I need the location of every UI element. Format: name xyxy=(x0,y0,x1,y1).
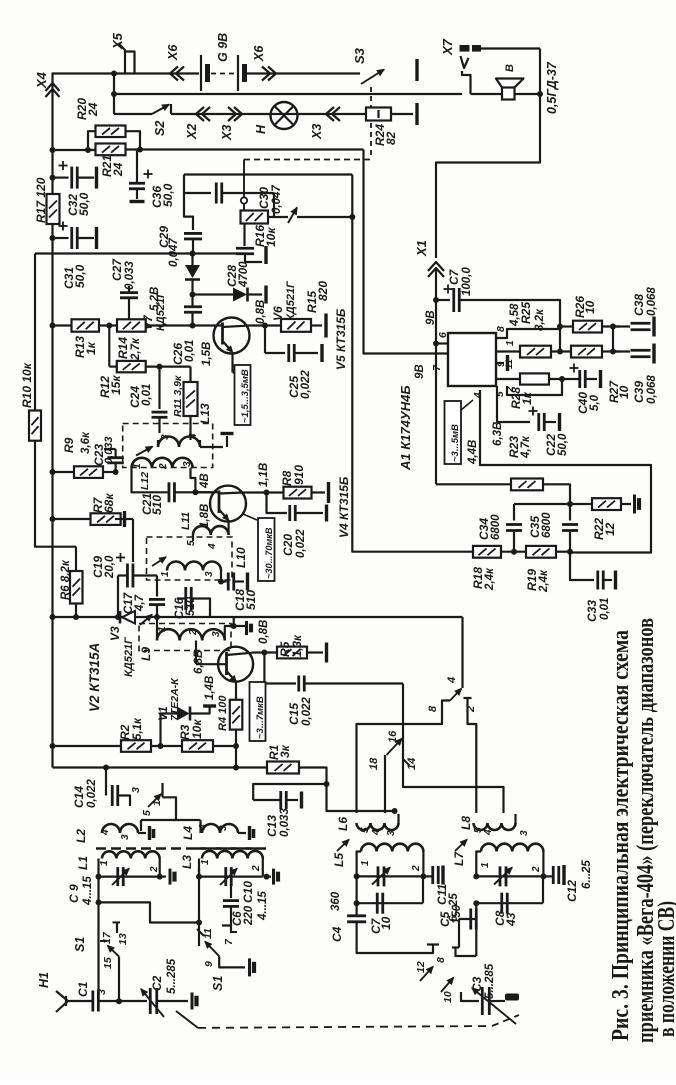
svg-text:X2: X2 xyxy=(185,124,199,140)
svg-text:А1 К174УН4Б: А1 К174УН4Б xyxy=(398,385,413,471)
svg-text:C30: C30 xyxy=(257,187,271,209)
svg-text:Н: Н xyxy=(254,124,268,134)
svg-text:5...285: 5...285 xyxy=(166,958,178,994)
svg-text:3: 3 xyxy=(182,461,193,467)
switch contact 8 xyxy=(442,701,450,713)
svg-text:R23: R23 xyxy=(507,436,521,458)
jack X7 xyxy=(460,45,470,52)
svg-text:4...15: 4...15 xyxy=(257,891,269,921)
svg-text:510: 510 xyxy=(244,590,258,610)
svg-text:КД521Г: КД521Г xyxy=(123,636,135,677)
node X4 xyxy=(53,74,115,768)
pin 6 xyxy=(433,341,439,347)
tank L5 xyxy=(337,840,349,852)
wire 9V rail xyxy=(126,148,364,150)
transistor V4 xyxy=(195,491,210,493)
speaker B 0.5GD-37 xyxy=(502,88,515,100)
coil L8 xyxy=(474,823,516,830)
svg-text:V4 КТ315Б: V4 КТ315Б xyxy=(337,476,351,538)
svg-text:S2: S2 xyxy=(153,121,167,136)
svg-text:Н1: Н1 xyxy=(37,972,51,988)
ground pin9 xyxy=(496,362,504,364)
capacitor C16 xyxy=(184,587,187,610)
svg-text:0,022: 0,022 xyxy=(300,370,312,399)
ferrite rod dash xyxy=(96,847,260,849)
capacitor C24 xyxy=(158,367,160,409)
diode V7 xyxy=(190,251,196,257)
resistor R15 xyxy=(262,323,268,329)
svg-text:12: 12 xyxy=(603,522,617,536)
svg-text:C24: C24 xyxy=(128,386,142,408)
svg-text:1: 1 xyxy=(505,340,516,346)
svg-text:4,7: 4,7 xyxy=(134,594,146,612)
capacitor C23 xyxy=(114,463,116,472)
capacitor C6 xyxy=(230,885,232,898)
svg-text:2: 2 xyxy=(149,866,160,873)
signal box ~30-70uV xyxy=(258,518,275,581)
svg-text:С 9: С 9 xyxy=(67,884,81,903)
capacitor C19 xyxy=(116,557,125,559)
svg-text:1: 1 xyxy=(360,860,371,866)
switch blade 12 xyxy=(420,967,433,982)
svg-text:1,4В: 1,4В xyxy=(204,676,216,700)
svg-text:C20: C20 xyxy=(281,534,295,556)
resistor R13 xyxy=(50,323,56,329)
potentiometer R16 xyxy=(241,197,247,203)
capacitor C15 xyxy=(264,653,296,684)
svg-text:10: 10 xyxy=(379,916,393,930)
svg-text:R4 100: R4 100 xyxy=(217,695,229,731)
coil L6 xyxy=(357,823,399,830)
capacitor C36 xyxy=(136,150,138,183)
resistor R14 xyxy=(117,319,146,331)
capacitor C26 xyxy=(184,305,202,308)
capacitor C12 xyxy=(543,875,553,877)
svg-text:L8: L8 xyxy=(459,816,473,830)
svg-text:9: 9 xyxy=(203,961,215,967)
svg-text:4...15: 4...15 xyxy=(82,876,94,906)
IF transformer L13 xyxy=(158,437,200,447)
svg-text:8,2к: 8,2к xyxy=(534,308,546,331)
svg-text:~3...7мкВ: ~3...7мкВ xyxy=(255,696,266,739)
svg-text:10к: 10к xyxy=(190,719,204,739)
capacitor C40 xyxy=(570,367,579,369)
svg-text:10: 10 xyxy=(442,991,454,1003)
lamp H xyxy=(271,102,298,129)
svg-text:0,068: 0,068 xyxy=(646,287,658,316)
svg-text:C22: C22 xyxy=(544,434,558,456)
svg-text:9В: 9В xyxy=(414,364,426,379)
svg-text:6,3В: 6,3В xyxy=(492,422,504,446)
svg-text:0,033: 0,033 xyxy=(103,436,115,464)
svg-text:C7: C7 xyxy=(447,268,461,285)
svg-text:L11: L11 xyxy=(180,512,192,530)
wire feedback loop xyxy=(480,390,651,553)
svg-text:5...285: 5...285 xyxy=(484,963,496,999)
svg-text:Рис. 3. Принципиальная элект: Рис. 3. Принципиальная электрическая схе… xyxy=(607,630,634,1041)
svg-text:V5 КТ315Б: V5 КТ315Б xyxy=(334,308,348,370)
switch contact 16 xyxy=(387,739,403,756)
svg-text:50,0: 50,0 xyxy=(73,264,87,288)
loop antenna L1 xyxy=(97,859,99,877)
svg-text:50,0: 50,0 xyxy=(77,192,91,216)
ground xyxy=(138,832,146,834)
svg-text:В: В xyxy=(504,64,516,72)
svg-text:L12: L12 xyxy=(139,472,151,490)
svg-text:G 9В: G 9В xyxy=(216,33,230,62)
svg-text:R19: R19 xyxy=(525,569,539,591)
resistor R21 xyxy=(96,144,126,156)
svg-text:C34: C34 xyxy=(477,518,491,540)
ground xyxy=(267,875,272,877)
wire antenna tap xyxy=(96,899,102,905)
resistor R28 xyxy=(496,378,520,380)
svg-text:1: 1 xyxy=(157,626,168,632)
capacitor C28 xyxy=(243,223,245,246)
svg-text:C28: C28 xyxy=(225,265,239,287)
resistor R2 xyxy=(50,743,56,749)
wire bottom rail xyxy=(53,766,268,768)
svg-text:0,01: 0,01 xyxy=(141,384,153,406)
svg-text:R14: R14 xyxy=(116,337,130,359)
capacitor C32 xyxy=(50,175,56,181)
svg-text:3к: 3к xyxy=(278,744,292,758)
svg-text:2: 2 xyxy=(411,865,422,872)
svg-text:0,022: 0,022 xyxy=(295,529,307,558)
svg-text:0,068: 0,068 xyxy=(646,375,658,404)
resistor R12 xyxy=(108,326,110,367)
svg-text:V3: V3 xyxy=(108,626,122,641)
capacitor C8 xyxy=(476,902,543,904)
capacitor C29 xyxy=(184,232,202,235)
svg-text:R10 10к: R10 10к xyxy=(20,362,34,408)
svg-text:R25: R25 xyxy=(519,302,533,324)
svg-text:360: 360 xyxy=(330,891,342,911)
svg-text:X5: X5 xyxy=(110,32,125,50)
svg-text:C27: C27 xyxy=(110,258,124,281)
svg-text:4: 4 xyxy=(473,392,484,399)
svg-text:L2: L2 xyxy=(74,829,88,843)
svg-text:1к: 1к xyxy=(520,391,534,405)
svg-text:9В: 9В xyxy=(425,310,437,325)
svg-text:43: 43 xyxy=(504,912,518,927)
svg-text:16: 16 xyxy=(387,730,399,743)
svg-text:6: 6 xyxy=(437,332,449,338)
svg-text:1к: 1к xyxy=(84,341,98,355)
svg-text:18: 18 xyxy=(368,757,380,770)
svg-text:L7: L7 xyxy=(452,851,466,866)
svg-text:510: 510 xyxy=(185,596,197,616)
svg-text:68к: 68к xyxy=(102,493,116,513)
svg-text:2: 2 xyxy=(251,865,262,872)
gang capacitor C2 xyxy=(116,998,122,1004)
svg-text:~30...70мкВ: ~30...70мкВ xyxy=(264,527,274,579)
svg-text:С10: С10 xyxy=(241,881,255,903)
svg-text:2: 2 xyxy=(531,866,542,873)
svg-text:C14: C14 xyxy=(72,786,86,808)
gang link xyxy=(176,1011,198,1028)
capacitor C34 xyxy=(513,504,515,521)
voltage box ~1.5-3.5mV xyxy=(235,365,251,425)
svg-text:L6: L6 xyxy=(336,817,350,831)
wire top bus xyxy=(114,72,199,74)
svg-text:С3: С3 xyxy=(470,976,484,992)
svg-text:4: 4 xyxy=(100,829,111,836)
svg-text:R5: R5 xyxy=(278,641,292,657)
capacitor C10 trimmer xyxy=(196,874,202,880)
svg-text:L5: L5 xyxy=(332,853,346,867)
svg-text:C38: C38 xyxy=(632,294,646,316)
wire het bus corner xyxy=(461,617,463,688)
svg-text:10к: 10к xyxy=(264,227,278,247)
svg-text:6...25: 6...25 xyxy=(581,860,593,889)
svg-text:L3: L3 xyxy=(180,855,194,869)
ground xyxy=(191,993,194,1010)
resistor R27 xyxy=(571,346,602,358)
svg-text:0,047: 0,047 xyxy=(271,185,283,214)
tank L7 xyxy=(455,840,467,852)
svg-text:X6: X6 xyxy=(252,45,266,62)
svg-text:13: 13 xyxy=(117,933,129,945)
IC A1 K174UN4B xyxy=(448,333,496,386)
svg-text:5,1к: 5,1к xyxy=(132,717,144,740)
svg-text:910: 910 xyxy=(292,465,306,485)
trimmer across L7 xyxy=(499,866,502,886)
svg-text:4: 4 xyxy=(207,543,218,550)
svg-text:R6 8,2к: R6 8,2к xyxy=(60,559,72,600)
svg-text:С2: С2 xyxy=(150,975,164,991)
battery G 9V xyxy=(200,55,202,91)
svg-text:0,022: 0,022 xyxy=(301,697,313,726)
resistor R18 xyxy=(352,175,473,552)
gang dashes xyxy=(198,1026,492,1028)
svg-text:4700: 4700 xyxy=(238,261,250,288)
connector X2 xyxy=(196,107,204,121)
capacitor C35 xyxy=(569,519,571,521)
oscillator coil L9 xyxy=(139,624,231,651)
resistor R1 xyxy=(267,762,299,774)
switch contact 18 xyxy=(384,755,386,813)
capacitor C9 trimmer xyxy=(96,874,102,880)
svg-text:150: 150 xyxy=(451,904,463,924)
diode V6 xyxy=(190,292,196,298)
svg-text:5,2В: 5,2В xyxy=(149,287,161,311)
capacitor C33 xyxy=(570,552,594,580)
resistor R17 xyxy=(47,194,60,224)
svg-text:C19: C19 xyxy=(91,556,105,578)
resistor R5 xyxy=(253,651,278,653)
svg-text:0,8В: 0,8В xyxy=(255,300,267,324)
svg-text:X3: X3 xyxy=(220,125,234,141)
connector X1 xyxy=(428,262,444,271)
svg-text:С11: С11 xyxy=(435,884,449,905)
diode V3 xyxy=(122,611,135,624)
svg-text:1: 1 xyxy=(160,571,171,577)
svg-text:X1: X1 xyxy=(414,240,429,257)
resistor R6 xyxy=(70,571,83,604)
svg-text:КД521Г: КД521Г xyxy=(285,280,297,321)
svg-text:0,047: 0,047 xyxy=(168,238,180,267)
ground xyxy=(226,436,228,447)
svg-text:X4: X4 xyxy=(34,71,49,89)
svg-text:1: 1 xyxy=(132,463,143,469)
svg-text:1: 1 xyxy=(200,859,211,865)
svg-text:L13: L13 xyxy=(198,403,212,424)
svg-text:1,8В: 1,8В xyxy=(199,504,211,528)
svg-text:C39: C39 xyxy=(632,381,646,403)
svg-text:3,6к: 3,6к xyxy=(80,431,92,454)
svg-text:R18: R18 xyxy=(471,567,485,589)
signal box ~3-7uV xyxy=(250,682,266,741)
svg-text:S1: S1 xyxy=(211,976,225,991)
switch contact 4 xyxy=(450,689,462,701)
svg-text:2: 2 xyxy=(188,629,199,636)
svg-text:50,0: 50,0 xyxy=(161,183,175,207)
capacitor C30 xyxy=(184,192,211,194)
svg-text:C4: C4 xyxy=(330,926,344,942)
svg-text:5: 5 xyxy=(141,810,153,816)
capacitor C31 xyxy=(50,235,56,241)
svg-text:R11 3,9к: R11 3,9к xyxy=(172,375,184,417)
capacitor C7var xyxy=(356,876,358,903)
ferrite rod dash 2 xyxy=(196,847,266,849)
capacitor C17 xyxy=(156,576,158,597)
ground xyxy=(123,511,126,527)
svg-text:5,0: 5,0 xyxy=(589,394,601,411)
switch contact 2 xyxy=(464,697,472,699)
wire speaker loop xyxy=(436,94,540,258)
svg-text:C5: C5 xyxy=(438,911,452,927)
svg-text:2: 2 xyxy=(158,463,169,470)
connector X5 xyxy=(119,44,125,74)
svg-text:~1,5...3,5мВ: ~1,5...3,5мВ xyxy=(240,369,251,423)
svg-text:X7: X7 xyxy=(440,38,455,56)
resistor R23 xyxy=(436,483,511,485)
svg-text:L4: L4 xyxy=(181,826,195,840)
connector X6 xyxy=(170,67,178,81)
connector X6 xyxy=(268,67,276,81)
capacitor C11 xyxy=(423,875,433,877)
resistor R20 xyxy=(53,149,96,151)
svg-text:0,01: 0,01 xyxy=(184,340,196,362)
wire osc tap xyxy=(403,684,504,814)
capacitor C22 xyxy=(497,386,530,422)
resistor R8 xyxy=(243,491,284,493)
svg-text:6800: 6800 xyxy=(541,512,553,538)
svg-text:0,022: 0,022 xyxy=(86,779,98,808)
svg-text:S1: S1 xyxy=(73,937,87,952)
svg-text:4В: 4В xyxy=(199,473,211,489)
capacitor C1 xyxy=(91,991,94,1012)
svg-text:3: 3 xyxy=(160,434,171,440)
svg-text:X6: X6 xyxy=(166,44,180,61)
svg-text:220: 220 xyxy=(243,905,255,926)
svg-text:1: 1 xyxy=(151,800,163,806)
svg-text:2,7к: 2,7к xyxy=(130,337,142,361)
svg-text:8: 8 xyxy=(435,957,447,963)
svg-text:3: 3 xyxy=(130,787,142,793)
svg-text:1: 1 xyxy=(480,862,491,868)
resistor R7 xyxy=(50,516,56,522)
svg-text:6,8В: 6,8В xyxy=(193,650,205,674)
wire pot feed xyxy=(184,173,352,175)
svg-text:24: 24 xyxy=(86,102,100,117)
svg-text:в положении СВ): в положении СВ) xyxy=(653,901,676,1037)
svg-text:C33: C33 xyxy=(585,600,599,622)
trimmer across L5 xyxy=(377,866,380,886)
svg-text:2,4к: 2,4к xyxy=(538,569,550,593)
capacitor C4 xyxy=(347,914,366,917)
svg-text:2: 2 xyxy=(465,706,477,713)
resistor R19 xyxy=(526,546,556,558)
svg-text:С12: С12 xyxy=(565,880,579,902)
ground xyxy=(225,626,245,641)
step to contacts xyxy=(163,797,201,820)
svg-text:820: 820 xyxy=(316,281,330,301)
resistor R10 xyxy=(29,411,41,441)
resistor R26 xyxy=(560,325,573,327)
IF transformer L10 xyxy=(147,537,233,580)
switch S1 mid xyxy=(198,869,200,946)
ground xyxy=(160,875,166,877)
svg-text:X3: X3 xyxy=(310,124,324,140)
svg-text:15к: 15к xyxy=(109,375,123,395)
resistor R25 xyxy=(496,350,520,352)
svg-text:4: 4 xyxy=(446,677,458,684)
svg-text:20,0: 20,0 xyxy=(104,555,116,579)
capacitor C39 xyxy=(613,350,630,352)
coupling coil L4 xyxy=(202,824,238,833)
svg-text:0,033: 0,033 xyxy=(279,808,291,837)
svg-text:3: 3 xyxy=(519,830,530,836)
svg-text:0,8В: 0,8В xyxy=(258,620,270,644)
switch blade 10 xyxy=(441,978,454,993)
wire detector bus xyxy=(53,616,463,618)
svg-text:1,3к: 1,3к xyxy=(292,634,304,657)
line to box xyxy=(243,514,257,520)
svg-text:C26: C26 xyxy=(171,343,185,365)
wire third bus xyxy=(114,113,152,115)
wire ground bus xyxy=(35,254,76,547)
svg-text:3: 3 xyxy=(218,825,229,831)
connector X3 xyxy=(326,107,334,121)
svg-text:11: 11 xyxy=(504,359,515,369)
svg-text:4,4В: 4,4В xyxy=(467,440,479,465)
svg-text:510: 510 xyxy=(150,495,164,515)
capacitor C21 xyxy=(168,482,171,502)
resistor R22 xyxy=(567,501,573,507)
svg-text:14: 14 xyxy=(406,758,418,770)
diode V1 det xyxy=(161,714,178,747)
svg-text:17: 17 xyxy=(101,931,113,944)
svg-text:1,5В: 1,5В xyxy=(201,342,213,366)
svg-text:10: 10 xyxy=(617,385,631,399)
resistor R4 xyxy=(235,682,237,700)
svg-text:4: 4 xyxy=(371,829,382,836)
wire second bus xyxy=(114,93,462,95)
svg-text:12: 12 xyxy=(415,961,427,973)
transistor V5 xyxy=(214,318,250,354)
svg-text:1: 1 xyxy=(99,860,110,866)
capacitor C13 xyxy=(253,784,326,800)
svg-text:4: 4 xyxy=(188,433,199,440)
svg-text:0,01: 0,01 xyxy=(599,598,611,620)
svg-text:0,5ГД-37: 0,5ГД-37 xyxy=(545,61,559,114)
svg-text:4: 4 xyxy=(483,829,494,836)
resistor R11 xyxy=(184,382,198,416)
svg-text:8: 8 xyxy=(495,326,507,332)
ground xyxy=(238,832,246,834)
